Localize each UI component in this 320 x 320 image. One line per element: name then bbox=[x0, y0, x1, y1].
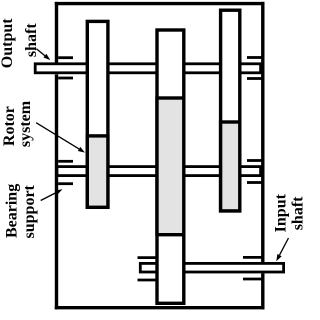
bearing support middle shaft left top bbox=[58, 160, 73, 163]
arrow to output shaft bbox=[36, 49, 45, 56]
bearing support output shaft left bottom bbox=[58, 77, 73, 80]
housing left wall upper segment bbox=[55, 2, 58, 63]
housing right wall lower segment bbox=[261, 273, 264, 309]
rotor disc right (gray part) bbox=[221, 122, 240, 211]
bearing support input shaft left top bbox=[138, 256, 158, 259]
input shaft bbox=[140, 263, 283, 272]
bearing support output shaft right top bbox=[247, 56, 262, 59]
bearing support input shaft right top bbox=[243, 256, 262, 259]
output shaft bbox=[35, 64, 260, 73]
bearing support output shaft right bottom bbox=[247, 77, 262, 80]
rotor disc right (white part) bbox=[221, 10, 240, 211]
bearing support middle shaft left bottom bbox=[58, 182, 73, 185]
svg-text:shaft: shaft bbox=[23, 23, 40, 57]
bearing support middle shaft right top bbox=[247, 159, 262, 162]
arrow to bearing support bbox=[41, 193, 57, 201]
svg-text:shaft: shaft bbox=[290, 196, 307, 230]
rotor disc middle (gray part) bbox=[157, 98, 184, 235]
svg-text:system: system bbox=[17, 100, 34, 147]
housing bottom wall bbox=[55, 306, 265, 309]
svg-text:Rotor: Rotor bbox=[1, 106, 18, 146]
svg-text:Output: Output bbox=[0, 18, 16, 68]
intermediate shaft bbox=[57, 167, 261, 176]
svg-text:Bearing: Bearing bbox=[3, 184, 20, 238]
svg-text:Input: Input bbox=[272, 193, 289, 232]
svg-text:support: support bbox=[21, 184, 38, 238]
arrow to input shaft bbox=[280, 238, 289, 255]
arrow to rotor system bbox=[36, 123, 79, 149]
bearing support middle shaft right bottom bbox=[247, 181, 262, 184]
rotor disc left (white part) bbox=[87, 21, 108, 207]
rotor disc middle (white part) bbox=[157, 30, 184, 303]
housing left wall lower segment bbox=[55, 74, 58, 309]
rotor disc left (gray part) bbox=[87, 136, 108, 207]
bearing support input shaft right bottom bbox=[243, 278, 262, 281]
bearing support output shaft left top bbox=[58, 56, 73, 59]
bearing support input shaft left bottom bbox=[138, 279, 158, 282]
housing right wall upper segment bbox=[261, 2, 264, 262]
housing top wall bbox=[55, 2, 265, 5]
